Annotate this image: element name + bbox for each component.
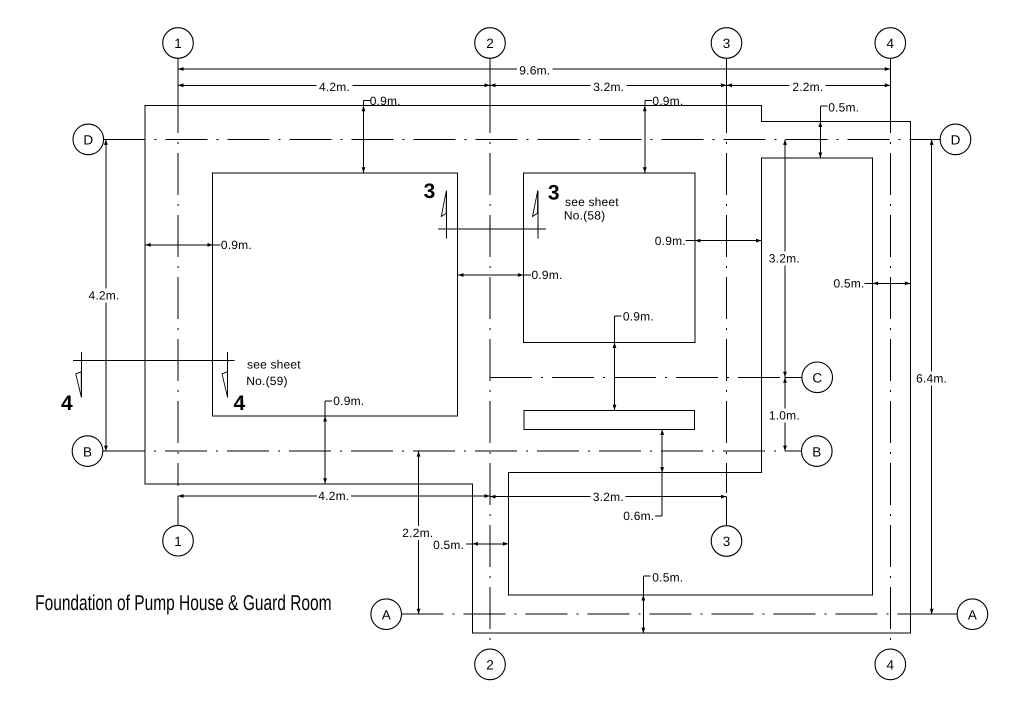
svg-text:3: 3 [723, 36, 731, 51]
dimension 4.2m left (row D-B): line [105, 139, 107, 288]
dimension 0.9m below pump room: leader and line [325, 400, 332, 402]
svg-text:4: 4 [887, 36, 895, 51]
svg-text:1: 1 [174, 534, 182, 549]
svg-text:No.(59): No.(59) [246, 374, 287, 388]
dimension 0.5m south-west wall: line [466, 543, 508, 545]
grid column 3 extension line bottom [726, 497, 728, 526]
arrowheads 4.2m left [104, 139, 108, 145]
grid bubble D left [73, 124, 104, 155]
grid row C centerline [490, 376, 785, 378]
arrowheads 0.9m below middle room [613, 343, 617, 349]
wall: strip footing bar below middle room [524, 410, 695, 429]
svg-text:0.9m.: 0.9m. [655, 234, 686, 248]
grid row A connector to right bubble [932, 613, 958, 615]
svg-text:4: 4 [233, 392, 245, 415]
svg-text:9.6m.: 9.6m. [519, 63, 550, 77]
svg-text:A: A [968, 607, 977, 622]
arrowheads 0.9m right [695, 239, 701, 243]
grid row C connector to right bubble [785, 376, 803, 378]
grid bubble 1 bottom [163, 525, 194, 556]
section 4 cut line [73, 359, 234, 361]
svg-text:0.5m.: 0.5m. [828, 100, 859, 114]
grid column 1 extension line top [177, 59, 179, 91]
section 4 left flag line [80, 352, 82, 398]
arrowheads 0.9m middle [458, 273, 464, 277]
arrowheads 0.9m below pump room [323, 416, 327, 422]
grid column 3 centerline [726, 91, 728, 493]
arrowheads 0.6m [660, 430, 664, 436]
grid column 1 extension line bottom [177, 496, 179, 526]
section 4 right flag line [227, 352, 229, 398]
grid bubble C right [802, 362, 833, 393]
section 3 right flag pennant [533, 191, 538, 217]
dimension 4.2m top (col 1-2): line [178, 84, 317, 86]
svg-text:0.9m.: 0.9m. [333, 394, 364, 408]
grid column 2 centerline [489, 91, 491, 649]
wall: pump house inner footing rectangle [213, 173, 458, 416]
grid column 2 extension line top [489, 59, 491, 91]
svg-text:0.9m.: 0.9m. [623, 310, 654, 324]
arrowheads 3.2m top [490, 83, 496, 87]
grid row D connector to right bubble [932, 138, 941, 140]
arrowheads 0.5m top-right [818, 122, 822, 128]
dimension 9.6m overall top: line [178, 68, 517, 70]
grid bubble 1 top [163, 28, 194, 59]
arrowheads 0.9m top-middle [643, 106, 647, 112]
section 3 left flag pennant [441, 191, 446, 217]
svg-text:4: 4 [61, 392, 73, 415]
dimension 0.9m top-left wall: leader and line [364, 100, 371, 102]
svg-text:4: 4 [887, 658, 895, 673]
wall: east and south wing inner footing boundary [508, 158, 872, 595]
svg-text:C: C [812, 371, 822, 386]
svg-text:B: B [83, 444, 92, 459]
section 3 left flag line [446, 191, 448, 239]
svg-text:0.6m.: 0.6m. [623, 509, 654, 523]
dimension 3.2m top (col 2-3): line [490, 84, 591, 86]
arrowheads 0.9m left [145, 243, 151, 247]
svg-text:0.9m.: 0.9m. [370, 94, 401, 108]
svg-text:No.(58): No.(58) [564, 209, 605, 223]
arrowheads 6.4m right [930, 139, 934, 145]
svg-text:2: 2 [486, 36, 494, 51]
dimension 3.2m bottom (col 2-3): line [490, 496, 591, 498]
section 3 right flag line [537, 191, 539, 239]
grid bubble 4 bottom [875, 649, 906, 680]
svg-text:see sheet: see sheet [565, 195, 619, 209]
svg-text:1: 1 [174, 36, 182, 51]
grid bubble 4 top [875, 28, 906, 59]
dimension 2.2m lower (row B-A): line [418, 451, 420, 526]
wall: outer foundation boundary [145, 106, 910, 633]
dimension 2.2m top (col 3-4): line [727, 84, 790, 86]
svg-text:0.9m.: 0.9m. [652, 94, 683, 108]
svg-text:2.2m.: 2.2m. [402, 526, 433, 540]
grid bubble 3 bottom [711, 526, 742, 557]
section 4 left flag pennant [76, 372, 82, 398]
svg-text:3: 3 [424, 180, 436, 203]
svg-text:B: B [812, 444, 821, 459]
svg-text:D: D [83, 133, 93, 148]
dimension 0.9m top-middle wall: leader and line [645, 100, 652, 102]
grid row A centerline [402, 613, 932, 615]
arrowheads 9.6m [178, 67, 184, 71]
grid row D centerline [104, 138, 932, 140]
svg-text:4.2m.: 4.2m. [319, 80, 350, 94]
dimension 4.2m bottom (col 1-2): line [178, 495, 317, 497]
dimension 0.9m between pump and middle rooms: line [458, 274, 531, 276]
arrowheads 0.9m top-left [362, 106, 366, 112]
arrowheads 1.0m right [783, 377, 787, 383]
arrowheads 3.2m right [783, 139, 787, 145]
grid bubble 2 top [475, 28, 506, 59]
svg-text:0.9m.: 0.9m. [221, 238, 252, 252]
svg-text:see sheet: see sheet [247, 357, 301, 371]
dimension 6.4m right (row D-A): line [931, 139, 933, 371]
svg-text:3.2m.: 3.2m. [593, 80, 624, 94]
section 3 cut line [438, 228, 546, 230]
section 4 right flag pennant [222, 372, 228, 398]
svg-text:0.9m.: 0.9m. [531, 268, 562, 282]
grid bubble 2 bottom [475, 649, 506, 680]
svg-text:3: 3 [723, 534, 731, 549]
svg-text:4.2m.: 4.2m. [318, 489, 349, 503]
dimension 0.9m between middle room and east wing: line [685, 240, 761, 242]
grid row B centerline [103, 450, 802, 452]
svg-text:D: D [951, 133, 961, 148]
grid bubble D right [940, 124, 971, 155]
svg-text:0.5m.: 0.5m. [833, 277, 864, 291]
arrowheads 0.5m south [641, 595, 645, 601]
dimension 0.5m south wing wall: line and leader [643, 575, 650, 577]
grid bubble B left [72, 436, 103, 467]
svg-text:3.2m.: 3.2m. [769, 251, 800, 265]
grid bubble B right [802, 436, 833, 467]
svg-text:A: A [382, 607, 391, 622]
arrowheads 4.2m top [178, 83, 184, 87]
grid column 3 extension line top [726, 59, 728, 91]
dimension 0.9m below middle room: leader and line [615, 315, 622, 317]
arrowheads 0.5m south-west [472, 542, 478, 546]
svg-text:0.5m.: 0.5m. [652, 571, 683, 585]
svg-text:1.0m.: 1.0m. [769, 409, 800, 423]
dimension 0.5m east wing wall: line [865, 282, 911, 284]
grid column 1 centerline [177, 91, 179, 486]
dimension 1.0m right (row C-B): line [784, 377, 786, 408]
arrowheads 2.2m top [727, 83, 733, 87]
svg-text:6.4m.: 6.4m. [916, 372, 947, 386]
dimension 0.5m top-right wall: leader and line [820, 105, 827, 107]
dimension 0.6m bar to south wing: line and leader [661, 430, 663, 516]
svg-text:3: 3 [548, 182, 560, 205]
svg-text:2: 2 [486, 658, 494, 673]
arrowheads 0.5m east [873, 282, 879, 286]
grid column 4 centerline [889, 91, 891, 649]
wall: middle room inner footing rectangle [523, 173, 695, 343]
arrowheads 2.2m lower [417, 451, 421, 457]
svg-text:4.2m.: 4.2m. [88, 289, 119, 303]
arrowheads 3.2m bottom [490, 495, 496, 499]
svg-text:0.5m.: 0.5m. [433, 538, 464, 552]
grid bubble 3 top [711, 28, 742, 59]
svg-text:2.2m.: 2.2m. [792, 80, 823, 94]
arrowheads 4.2m bottom [178, 494, 184, 498]
grid bubble A left [371, 599, 402, 630]
grid bubble A right [957, 599, 988, 630]
svg-text:3.2m.: 3.2m. [593, 490, 624, 504]
svg-text:Foundation of Pump House & Gua: Foundation of Pump House & Guard Room [35, 591, 332, 615]
grid column 4 extension line top [889, 59, 891, 91]
dimension 3.2m right (row D-C): line [784, 139, 786, 251]
dimension 0.9m left wall: line [145, 244, 220, 246]
